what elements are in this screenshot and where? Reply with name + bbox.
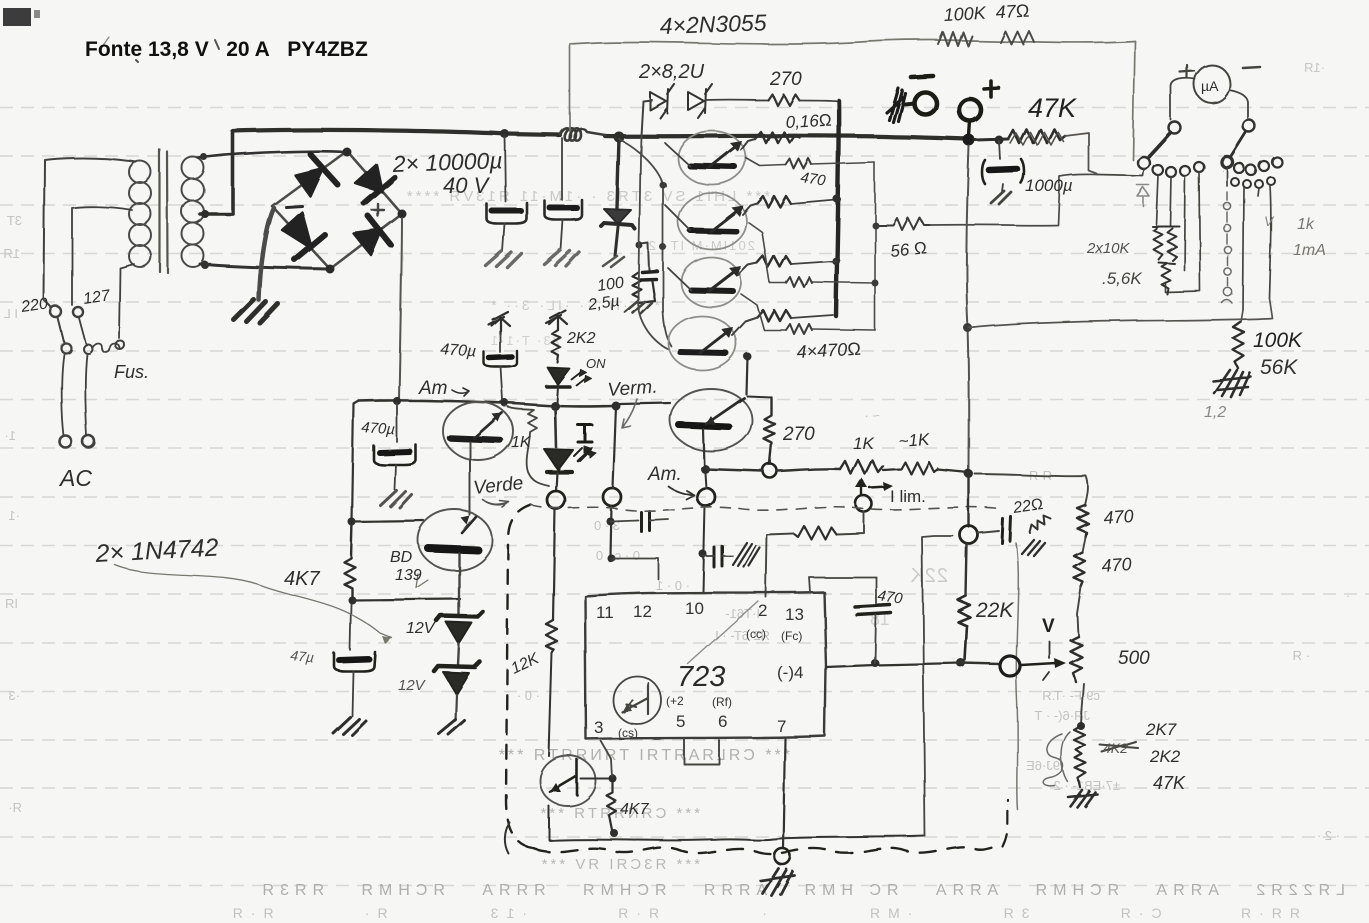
node +rail y474 (965, 470, 974, 479)
resistor 22R squiggle (1030, 516, 1051, 533)
svg-text:2×8,2U: 2×8,2U (638, 61, 705, 83)
left contact bank rings (1153, 162, 1204, 177)
svg-text:BD: BD (390, 549, 413, 566)
wire Q1 emitter to R e1 (741, 139, 755, 150)
plus sign (984, 81, 999, 97)
diode D5 ground lead (615, 227, 618, 256)
resistor R b1 470 (base row) (786, 159, 812, 169)
svg-text:Fonte 13,8 V 20 A PY4ZBZ: Fonte 13,8 V 20 A PY4ZBZ (85, 38, 368, 61)
node x705 y469 (701, 465, 710, 474)
transistor Q1 2N3055 (665, 131, 746, 185)
svg-text:1k: 1k (1297, 216, 1315, 233)
ground CuI at chain bottom (1068, 790, 1097, 807)
right contact bank rings row2 (1231, 177, 1275, 188)
wire Q3 emitter to R e3 (738, 263, 757, 275)
svg-text:12: 12 (633, 602, 652, 621)
svg-text:±7·EB1- · 2: ±7·EB1- · 2 (1054, 778, 1120, 793)
wire stem to meter shunt resistor (1241, 310, 1243, 322)
wiper arrow to pot 500 (1021, 663, 1056, 665)
wire pin(-)4 to bus y663 (826, 663, 961, 667)
svg-text:139: 139 (395, 567, 422, 584)
svg-text:9J·6E: 9J·6E (1026, 758, 1060, 773)
svg-text:Verm.: Verm. (607, 377, 658, 401)
capacitor C1 ground lead (503, 224, 505, 252)
wire base row2 (748, 222, 875, 283)
svg-text:AC: AC (58, 465, 92, 491)
node base return 283 (872, 280, 879, 287)
node x613 y779 (609, 775, 617, 783)
Verde underline swoosh (483, 500, 509, 507)
node y522 x352 (348, 518, 356, 526)
wire primary mid to 127 tap (72, 207, 132, 305)
wire bridge plus vertex down to lower circuit (399, 218, 402, 399)
node positive rail 328 (964, 324, 973, 333)
svg-text:2K7: 2K7 (1145, 720, 1177, 739)
svg-text:(-)4: (-)4 (777, 663, 803, 682)
svg-text:723: 723 (677, 661, 725, 693)
Ilim arrow (861, 482, 863, 496)
wire 1K to pin2 riser (766, 534, 794, 597)
zener ZD2 8,2V (688, 84, 712, 118)
wire y600 to BD emitter chain (352, 599, 460, 600)
wire meter to left switch arm (1171, 78, 1195, 120)
svg-text:470: 470 (876, 587, 904, 607)
transistor Q8 (bottom) (540, 756, 596, 806)
Am. annotation arrow (668, 486, 694, 499)
svg-text:10: 10 (685, 599, 704, 618)
svg-text:470: 470 (1101, 554, 1132, 576)
svg-text:1mA: 1mA (1293, 242, 1326, 259)
svg-text:c9·F- ·T.Я: c9·F- ·T.Я (1042, 688, 1100, 703)
wire Q5 collector to 270 (747, 396, 771, 397)
transistor Q2 2N3055 (665, 193, 746, 249)
svg-text:·1Я: ·1Я (1304, 60, 1325, 75)
wire ring E down to 22K (966, 544, 967, 596)
svg-text:Am: Am (418, 378, 448, 399)
feedthrough ring E (pass output) (960, 526, 978, 544)
wire ring A down to 12K (553, 509, 555, 620)
wire C8 link (703, 555, 733, 557)
bottom rail y838 (549, 806, 925, 840)
svg-text:4×2N3055: 4×2N3055 (659, 9, 767, 39)
node AC terminal left (60, 436, 72, 448)
wire +rail down to ring E (968, 478, 970, 527)
node centre tap (201, 210, 209, 218)
feedthrough ring A (Verde) (547, 491, 565, 509)
wire base row1 (746, 158, 875, 166)
meter plus mark (1180, 65, 1194, 78)
resistor 47R (top, on box edge) (1000, 31, 1034, 44)
emitter bus (thick vertical right of transistors) (836, 101, 839, 316)
capacitor C4 ground lead (1002, 184, 1003, 191)
wire 12K down to Q8 (549, 653, 552, 756)
C10 lead to bus (875, 615, 876, 663)
resistor R e4 (757, 310, 791, 321)
resistor 47K overdraw (1010, 132, 1064, 145)
node base feeder 185 (660, 182, 667, 189)
svg-text:I L: I L (4, 306, 18, 321)
transistor Q3 2N3055 (668, 257, 741, 307)
resistor R 56 ohm (875, 218, 930, 230)
wire 47K to switch feed (1065, 133, 1097, 174)
svg-text:· 0 ·: · 0 · (517, 688, 540, 703)
svg-text:6: 6 (718, 712, 727, 731)
zener ZD4 12V (434, 662, 480, 694)
wire primary top to 220 tap (44, 158, 136, 308)
capacitor C1 body (487, 203, 527, 224)
svg-text:2x10K: 2x10K (1086, 240, 1131, 257)
enclosure box 4x2N3055 (top edge) (570, 40, 1135, 44)
node 220 terminal (51, 307, 62, 318)
wire R e3 to emitter bus (791, 261, 836, 264)
C8 scribble blob (733, 543, 760, 567)
wire Am row y471 (705, 469, 840, 471)
wire Q8 to 4K7 node (581, 778, 612, 780)
tap arrow above C11 (488, 311, 509, 334)
dashed enclosure top edge (531, 505, 1000, 511)
capacitor C3 2,5u plates (640, 271, 657, 280)
svg-text:1,2: 1,2 (1204, 404, 1226, 421)
C3 / resistor bottom bracket (638, 281, 655, 303)
wire secondary centre tap to bus riser (200, 212, 233, 215)
wire secondary top to bridge top vertex (198, 151, 345, 158)
node x352 y600 (348, 596, 356, 604)
wire zener chain to resistor 270 (706, 99, 768, 101)
transistor Q6 Am2 (443, 402, 513, 460)
node y403 x505 (501, 399, 509, 407)
wire BD139 emitter down (458, 553, 460, 614)
meter M1 uA body (1194, 65, 1230, 103)
capacitor C6 lead (350, 604, 351, 650)
wire y474 to right branch (975, 474, 1086, 476)
wire bus riser (centre tap up to main bus) (231, 131, 235, 214)
node y403 x555 (551, 402, 560, 411)
capacitor C6 body (334, 652, 375, 671)
wire Q6 base/emitter drop to BD139 (469, 442, 471, 515)
output terminal minus ring (914, 92, 936, 114)
switch S1 pole (61, 343, 71, 353)
enclosure box left edge (569, 44, 571, 131)
node y403 x397 (393, 397, 401, 405)
wire plus ring to bus node (969, 121, 970, 136)
svg-text:·3: ·3 (8, 688, 20, 703)
wire 56 ohm row to switch (930, 175, 1098, 225)
minus sign (911, 76, 933, 77)
capacitor C1 10000u lead (505, 136, 506, 202)
right bank stems (1227, 168, 1271, 310)
svg-text:4K7: 4K7 (620, 801, 650, 818)
svg-text:IЯ: IЯ (5, 596, 18, 611)
svg-text:ЯЯ·Я C·Я 3Я ·: ЯЯ·Я C·Я 3Я ·MЯ · Я·Я ·13 Я· Я·Я (225, 905, 1300, 921)
ground at bridge minus (234, 300, 278, 323)
node x703 y554 (699, 550, 707, 558)
ZD4 ground lead (455, 694, 456, 720)
wire Q5 emitter down (703, 429, 704, 467)
resistor R b3 (786, 324, 812, 334)
svg-text:(+2: (+2 (666, 694, 684, 708)
wire Ilim ring down to 1K(pin2) (836, 512, 864, 534)
resistor R 270 (driver emitter) (764, 397, 775, 464)
svg-text:LЯ22Я2 AЯЯA ЯCHMЯ AЯЯA: LЯ22Я2 AЯЯA ЯCHMЯ AЯЯA ЯC HMЯ AЯЯЯ ЯCHMЯ… (257, 882, 1346, 899)
wiper ring (V out) (1000, 656, 1020, 676)
node bus plus (heavy) (963, 134, 975, 146)
faint right-side bleed marks (1221, 60, 1350, 603)
node bus y663 x961 (957, 659, 966, 668)
svg-text:4K7: 4K7 (284, 568, 320, 590)
resistor R 2K2 (ON chain) (552, 330, 561, 363)
svg-text:11: 11 (596, 603, 614, 622)
crossed-out label mark (1100, 742, 1138, 752)
enclosure box right edge (1133, 41, 1135, 160)
svg-text:(Fc): (Fc) (781, 629, 802, 643)
svg-text:*** CЯNЯЯTЯ ***: *** CЯNЯЯTЯ *** (537, 805, 700, 822)
node base feeder 247 (660, 244, 667, 251)
zener ZD1 8,2V (650, 84, 674, 118)
node bridge top (343, 148, 352, 157)
wire bridge minus vertex down to ground (259, 208, 274, 300)
left arm contact ring (1138, 157, 1150, 169)
svg-text:1·: 1· (4, 428, 16, 443)
node y403 x616 (612, 402, 621, 411)
svg-text:.5,6K: .5,6K (1102, 269, 1142, 288)
IC U1 723 box (585, 592, 826, 739)
base feeder line (x663) (619, 139, 671, 346)
right switch arm (1231, 132, 1246, 156)
capacitor C9 22R plates (1002, 517, 1011, 543)
resistor R 1K b (883, 462, 938, 474)
wire ring D down to pin 10 (703, 506, 705, 592)
potentiometer 500 (1070, 636, 1082, 682)
svg-text:22K: 22K (909, 565, 948, 587)
fuse F1 (92, 344, 120, 353)
capacitor C4 1000u body (982, 159, 1024, 184)
node x875 y663 (871, 659, 879, 667)
annotation arrow 1N4742 (115, 565, 392, 638)
transistor Q7 BD139 (418, 510, 492, 570)
wire between 470s (1082, 537, 1085, 552)
svg-text:Я·: Я· (8, 800, 22, 815)
ground at C2 (544, 250, 579, 266)
bridge minus mark (286, 206, 302, 207)
svg-text:270: 270 (782, 424, 815, 445)
node 127 terminal (73, 307, 83, 317)
left bank stems (1156, 172, 1200, 292)
meter minus mark (1243, 67, 1260, 68)
svg-text:470µ: 470µ (440, 341, 477, 360)
ground at D5 (603, 256, 624, 267)
svg-text:·1: ·1 (8, 508, 20, 523)
right return vertical x925 (922, 536, 953, 836)
LED ON body (547, 368, 592, 387)
svg-text:I lim.: I lim. (890, 487, 926, 506)
ground at C6 (333, 717, 366, 735)
wire bus to 47K (975, 139, 1008, 140)
wire y522 cross (352, 521, 424, 522)
svg-text:470: 470 (799, 169, 827, 189)
resistor R 1K a (840, 460, 883, 474)
svg-text:1Я: 1Я (3, 246, 20, 261)
svg-text:(cs): (cs) (618, 726, 638, 740)
svg-text:3T: 3T (7, 213, 22, 228)
723 fold line (688, 601, 758, 664)
node secondary top (201, 154, 208, 161)
wire Q5 emitter node to ring D (705, 473, 706, 488)
capacitor C2 body (545, 200, 582, 220)
capacitor C8 (pin10 to scribble) (714, 546, 722, 567)
pin 7 terminal ring (774, 848, 790, 864)
resistor R 4K7 (bottom) (607, 779, 616, 830)
resistor R 270 (top) (768, 94, 799, 105)
tap arrow above 2K2 (546, 310, 567, 330)
svg-text:~1K: ~1K (898, 430, 931, 451)
wire x616 down to ring B (613, 406, 616, 488)
node x610 y521 (606, 517, 614, 525)
C6 ground lead (352, 671, 353, 716)
bridge diode D4 (353, 216, 391, 255)
wire base row3 (741, 294, 875, 330)
diode D5 body (zener, apex down) (601, 209, 635, 229)
capacitor C2 10000u lead (561, 138, 563, 200)
svg-text:1000µ: 1000µ (1025, 176, 1073, 195)
svg-text:4×470Ω: 4×470Ω (796, 339, 861, 362)
ground at C3 (625, 301, 652, 314)
wire bus y663 to wiper ring (961, 663, 1000, 664)
svg-text:2K2: 2K2 (566, 330, 596, 347)
wire Q4 emitter node down to driver collector (746, 356, 747, 394)
capacitor C5 470u lead (396, 403, 398, 442)
svg-text:· Я: · Я (1293, 648, 1310, 663)
bus ferrite loops (560, 128, 605, 140)
wire Q2 emitter to R e2 (742, 203, 757, 214)
svg-text:Fus.: Fus. (114, 362, 149, 382)
Am2 annotation arrow (452, 388, 469, 396)
svg-text:1K: 1K (511, 434, 532, 451)
wire right bank down to 100K/56K branch (969, 298, 1272, 328)
svg-text:V: V (1042, 616, 1055, 637)
scribble loops beside chain (1044, 732, 1070, 786)
svg-text:·: · (1346, 588, 1350, 603)
node 47K tap (995, 136, 1004, 145)
bridge diode D3 (282, 212, 325, 260)
node AC terminal right (83, 436, 95, 448)
Verm annotation arrow (622, 399, 637, 428)
right arm pivot ring (1243, 120, 1255, 132)
node x1081 y726 (1077, 722, 1085, 730)
svg-text:47K: 47K (1028, 93, 1077, 123)
output terminal minus scribble (886, 88, 905, 122)
transistor Q5 driver (620, 389, 752, 451)
svg-text:~ ·: ~ · (864, 408, 880, 423)
resistor R e2 (757, 196, 791, 207)
resistor 2x10K pair (1152, 226, 1179, 263)
output terminal plus ring (959, 99, 981, 121)
svg-text:(Rf): (Rf) (712, 695, 732, 709)
wire R e2 to emitter bus (791, 200, 836, 204)
wire main horizontal y403 (359, 400, 616, 406)
dashed paren mark bottom-left (505, 823, 510, 854)
positive rail vertical (down to regulator area) (966, 146, 969, 473)
resistor R 1K (LED bypass) (508, 407, 549, 486)
node x747 y356 (743, 352, 751, 360)
wire primary bottom lead (119, 264, 134, 338)
zener ZD3 12V (437, 612, 483, 644)
svg-text:7: 7 (777, 717, 786, 736)
wire 270 to emitter bus top (799, 100, 839, 101)
resistor R 12K (546, 620, 557, 653)
svg-text:*** CЯLЯAЯTЯI TЯNЯЯTЯ ***: *** CЯLЯAЯTЯI TЯNЯЯTЯ *** (496, 747, 790, 764)
bridge diode D1 (295, 154, 337, 196)
bridge diode D2 (355, 164, 394, 203)
selector dashed stem with rings (1222, 192, 1232, 303)
svg-text:13: 13 (785, 605, 804, 624)
wire switch to AC terminal left (62, 354, 64, 436)
resistor R 1K (pin 2) (794, 526, 836, 539)
dark corner scan mark (3, 8, 31, 26)
svg-text:0 · c · 0: 0 · c · 0 (596, 548, 640, 563)
wire zener chain left stub down to bus (641, 100, 652, 136)
node bridge bottom (326, 265, 335, 274)
resistor R e3 (757, 256, 791, 267)
wire y474 branch down to 470 chain (1085, 476, 1088, 505)
wire secondary bottom to bridge bottom vertex (200, 264, 330, 269)
bridge plus mark (372, 204, 384, 216)
ground at C5 (381, 491, 412, 508)
wire ring B down (610, 506, 611, 556)
C5 ground lead (395, 465, 396, 490)
wire left-arm contact to 56R/47K feed (1098, 169, 1144, 176)
resistor chain bottom right (2K7/47K) (1074, 726, 1086, 787)
svg-text:500: 500 (1118, 648, 1150, 669)
diode D5 (clamp at bus) lead (617, 138, 619, 208)
ground hatch at 22R (1022, 540, 1045, 556)
main positive bus (top) (233, 130, 968, 139)
svg-text:4K2: 4K2 (1103, 740, 1128, 756)
resistor R e1 0,16 ohm (755, 132, 800, 143)
base bus vertical (x641) (638, 136, 668, 349)
wire left drop from y403 (352, 401, 359, 522)
svg-text:I·T61-: I·T61- (725, 606, 760, 621)
svg-text:2K2: 2K2 (1149, 747, 1181, 766)
dashed enclosure left edge (506, 505, 533, 848)
svg-text:470: 470 (1103, 506, 1134, 528)
svg-text:2: 2 (758, 601, 767, 620)
capacitor C7 (ring B to pin area) (610, 511, 668, 531)
transformer T1 secondary winding (182, 157, 204, 267)
svg-text:56 Ω: 56 Ω (889, 238, 927, 261)
node secondary bottom (201, 261, 209, 269)
LED D6 Verm lead (555, 406, 556, 447)
node bridge right (398, 210, 407, 219)
pin 7 lead down (783, 739, 785, 848)
faint zener mark near switch (1137, 185, 1149, 206)
svg-text:40 V: 40 V (443, 173, 491, 198)
wire 470 chain down to pot (1077, 587, 1081, 636)
wire Q4 emitter to R e4 (732, 317, 757, 335)
wire y577 (Fc to C10) (809, 577, 876, 592)
I bold glyph (578, 425, 592, 442)
wire minus ring stub (905, 103, 914, 104)
capacitor C5 470u body (374, 445, 416, 465)
transformer T1 core (160, 150, 168, 273)
svg-text:· 2 ·: · 2 · (1317, 828, 1340, 843)
base return bus (x875) (874, 163, 876, 330)
wire 1K b to +rail node (938, 470, 969, 473)
svg-text:12V: 12V (406, 620, 436, 637)
feedthrough ring B (603, 488, 621, 506)
node bus x619 (heavy) (614, 132, 625, 143)
wire between zeners (458, 644, 459, 665)
right contact bank rings row1 (1222, 157, 1282, 175)
